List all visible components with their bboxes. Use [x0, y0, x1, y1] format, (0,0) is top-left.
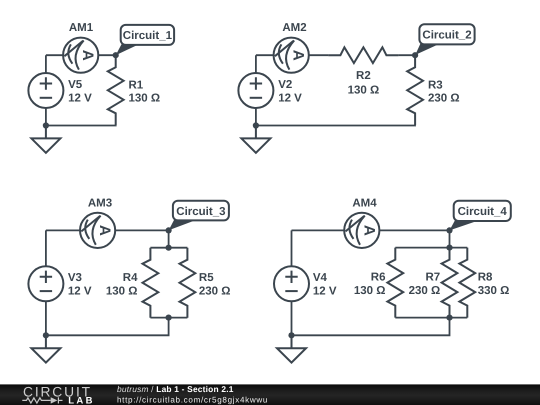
- svg-text:R6: R6: [371, 272, 386, 284]
- svg-text:130 Ω: 130 Ω: [129, 93, 161, 105]
- svg-text:AM4: AM4: [352, 198, 377, 210]
- svg-text:http://circuitlab.com/cr5g8gjx: http://circuitlab.com/cr5g8gjx4kwwu: [117, 395, 268, 404]
- svg-text:R8: R8: [478, 272, 493, 284]
- svg-text:AM2: AM2: [282, 22, 306, 34]
- svg-text:12 V: 12 V: [313, 286, 337, 298]
- svg-text:130 Ω: 130 Ω: [354, 285, 386, 297]
- svg-text:230 Ω: 230 Ω: [428, 93, 460, 105]
- svg-text:12 V: 12 V: [68, 92, 92, 104]
- svg-text:AM3: AM3: [88, 198, 112, 210]
- svg-text:butrusm / Lab 1 - Section 2.1: butrusm / Lab 1 - Section 2.1: [117, 384, 234, 394]
- svg-text:R1: R1: [129, 79, 144, 91]
- svg-text:Circuit_3: Circuit_3: [176, 206, 225, 218]
- svg-text:V5: V5: [68, 79, 83, 91]
- svg-text:V2: V2: [278, 79, 292, 91]
- svg-text:R2: R2: [356, 70, 371, 82]
- svg-text:R3: R3: [428, 79, 443, 91]
- svg-text:R4: R4: [123, 272, 138, 284]
- svg-text:12 V: 12 V: [68, 286, 92, 298]
- svg-text:330 Ω: 330 Ω: [478, 285, 510, 297]
- svg-text:LAB: LAB: [68, 396, 95, 405]
- svg-text:230 Ω: 230 Ω: [199, 286, 231, 298]
- svg-text:130 Ω: 130 Ω: [348, 84, 380, 96]
- svg-text:130 Ω: 130 Ω: [106, 286, 138, 298]
- svg-text:12 V: 12 V: [278, 92, 302, 104]
- svg-text:Circuit_2: Circuit_2: [422, 30, 471, 42]
- svg-text:V4: V4: [313, 272, 328, 284]
- svg-text:230 Ω: 230 Ω: [409, 285, 441, 297]
- svg-text:Circuit_4: Circuit_4: [458, 206, 508, 218]
- svg-text:V3: V3: [68, 272, 82, 284]
- svg-text:R5: R5: [199, 272, 214, 284]
- svg-text:Circuit_1: Circuit_1: [123, 30, 173, 42]
- svg-text:R7: R7: [425, 272, 440, 284]
- svg-text:AM1: AM1: [69, 22, 94, 34]
